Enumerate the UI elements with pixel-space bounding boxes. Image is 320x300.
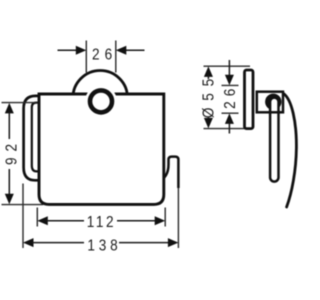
rosette (side profile) bbox=[245, 70, 254, 129]
pin white halo bbox=[85, 85, 117, 117]
dimension 92 line upper segment with up arrow bbox=[5, 103, 14, 139]
bracket bottom edge crossing the arm bbox=[268, 111, 281, 114]
paper-guard wire curve (side) bbox=[284, 94, 297, 208]
dimension 26 right leader with arrow bbox=[116, 46, 145, 55]
extension line lower of side dim 26 (y=113.2) bbox=[222, 112, 239, 114]
pin ring bbox=[90, 90, 112, 112]
extension line 138 left (x=23) bbox=[22, 184, 24, 249]
svg-text:Ø55: Ø55 bbox=[201, 72, 218, 118]
extension line upper of side dim 26 (y=85.4) bbox=[222, 84, 239, 86]
extension line top of dim 92 / roll-holder top edge (y=102.6) bbox=[2, 102, 40, 104]
dimension 138 line with outward arrows bbox=[23, 238, 178, 247]
extension line left of dim 26 (x=86.3) bbox=[85, 41, 87, 73]
roll-holder wire loop inner edge (left) bbox=[32, 103, 40, 172]
side dim 26 lower leader with up arrow bbox=[225, 113, 234, 133]
extension line top of dim 55 (y=66.2) bbox=[204, 65, 251, 67]
dimension 55 line with inside arrows bbox=[204, 66, 213, 128]
svg-text:112: 112 bbox=[87, 214, 116, 231]
side dim 26 upper leader with down arrow bbox=[225, 60, 234, 85]
extension line bottom of dim 55 (y=128.6) bbox=[204, 128, 249, 130]
extension line bottom of dim 92 (y=204.6) bbox=[2, 204, 44, 206]
lid plate (front) bbox=[39, 94, 164, 204]
svg-text:138: 138 bbox=[87, 237, 121, 254]
extension line 112 left (x=37.3) bbox=[36, 208, 38, 227]
pivot disc (side) bbox=[265, 94, 281, 110]
spindle hook (right side) bbox=[158, 157, 178, 188]
svg-text:92: 92 bbox=[4, 138, 21, 165]
svg-text:26: 26 bbox=[222, 84, 239, 109]
svg-text:26: 26 bbox=[92, 46, 117, 63]
extension line 138 right (x=178.4) bbox=[177, 188, 179, 248]
rosette dome (front) bbox=[73, 71, 128, 126]
extension line right of dim 26 (x=115.8) bbox=[115, 41, 117, 73]
roll-holder wire loop outer edge (left) bbox=[24, 96, 40, 180]
dimension 112 line with outward arrows bbox=[37, 216, 165, 225]
holder arm capsule (side) bbox=[270, 98, 278, 182]
extension line 112 right (x=165.2) bbox=[164, 208, 166, 227]
dimension 26 left leader with arrow bbox=[58, 46, 87, 55]
dimension 92 line lower segment with down arrow bbox=[5, 169, 14, 204]
pivot bracket housing (side) bbox=[257, 92, 283, 113]
